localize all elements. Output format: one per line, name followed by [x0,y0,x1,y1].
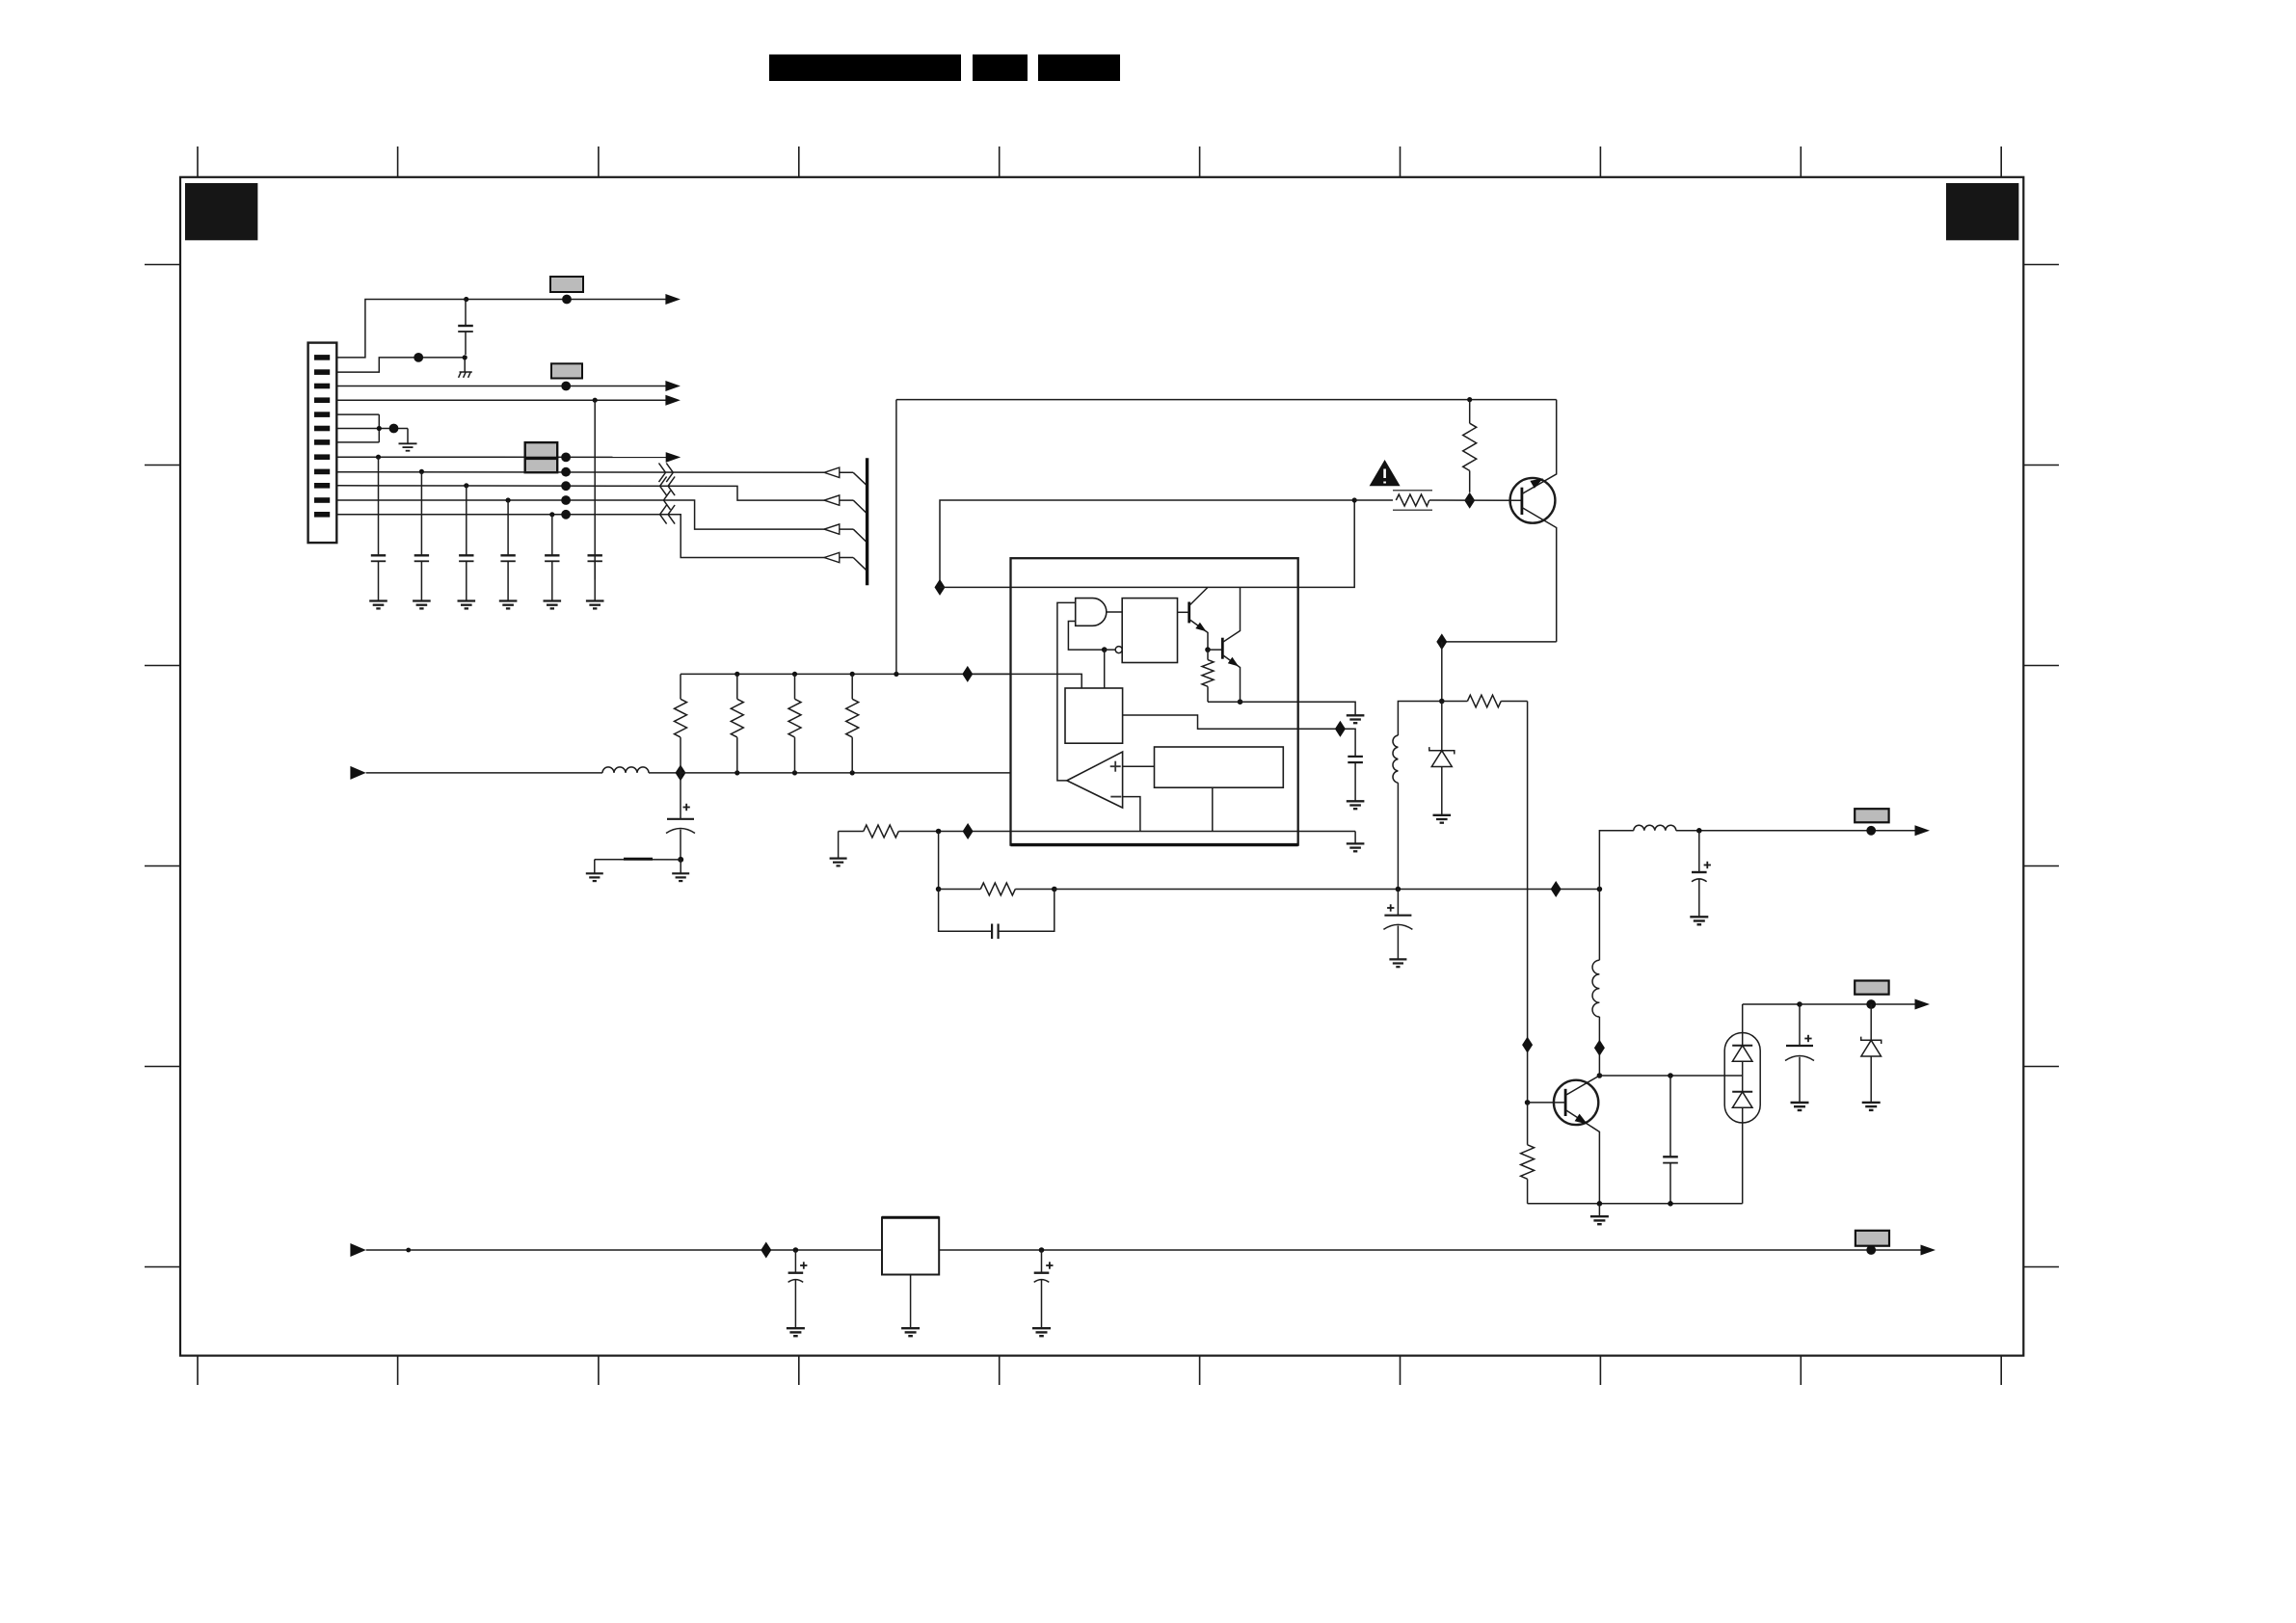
wire R9 to Q2 emitter node [1208,701,1241,703]
node diamond (supply rail) [676,764,686,781]
inductor L1 [602,767,649,773]
wire ground link [595,859,681,861]
wire ground link stub [594,860,596,874]
node junction E6 [793,1247,799,1253]
wire L1 to node [649,772,681,774]
decoupling capacitor C5 [500,500,515,601]
wire Q1 collector [1189,587,1208,605]
ground (C5) [499,601,518,609]
zener diode D3 [1861,1004,1882,1103]
arrow out (pin8) [666,452,681,463]
ground (E4) [1690,917,1708,924]
wire collector rail into IC [940,586,1298,588]
node junction pin12 drop [549,512,554,517]
wire inverter stub [1105,649,1116,651]
wire collector rail out of IC [1298,500,1355,587]
electrolytic capacitor E1 [666,773,695,860]
wire output tee down to choke L4 [1598,890,1600,961]
plus sign E7 [1046,1262,1053,1268]
twin diode D2 outline [1724,1033,1760,1124]
wire pin4 run [336,399,666,401]
node junction C9 bottom [1668,1201,1673,1207]
diode D2a [1732,1046,1752,1076]
node junction L2 / fb rail [1396,887,1402,892]
thick wire segment (ground link) [624,858,653,861]
wire reference block ground pin [1212,787,1214,831]
test point TP7 [561,481,571,491]
wire Q3 emitter lead [1565,1110,1599,1204]
test point TP5 [561,453,571,463]
wire supply rail bottom [681,772,1011,774]
resistor R8 [1521,1103,1535,1204]
bus arrow pin11 [824,524,840,534]
node junction pin10 drop [464,483,468,488]
arrow output2 [1915,999,1931,1010]
chevron marks pin12 (in) [660,505,676,524]
title bar 1 [769,55,961,82]
logic block U1b [1122,599,1177,663]
ground (C4) [458,601,476,609]
wire pin11 run [336,500,853,529]
wire pin6 ground drop [407,429,409,444]
input arrow (bottom rail) [350,1243,365,1257]
wire pin5-7 tie [378,414,380,442]
node diamond (base drop) [1522,1037,1533,1053]
electrolytic capacitor E6 [788,1250,804,1328]
node junction base loop [1352,497,1357,502]
label box (redacted) output2 [1855,981,1888,995]
arrow Q2 emitter [1228,657,1239,667]
ground (pin6) [399,443,417,450]
bus arrow pin10 [824,495,840,505]
capacitor C10 [1348,757,1363,762]
label box (redacted) TP3 [551,363,582,378]
wire to choke L2 [1398,702,1441,736]
decoupling capacitor C7 [588,555,602,600]
connector J1 pins 1-12 [314,355,330,517]
test point TP12 [1866,1245,1876,1255]
test point TP6 [561,467,571,477]
ground (analog right) [1347,843,1365,851]
node junction Q3 emitter bottom [1597,1201,1603,1207]
node junction sense drop [894,672,898,677]
inductor L2 (vertical) [1393,735,1398,783]
ground (E3) [1389,959,1406,967]
capacitor C1 [458,300,473,356]
ground (D1) [1433,815,1452,823]
test point TP8 [561,495,571,505]
arrow out (pin4) [665,395,681,406]
resistor R1 [675,674,687,773]
wire pin12 run [336,515,853,558]
wire Q1 emitter [1189,620,1208,651]
node junction pin4 drop [593,398,598,403]
node junction R4 bottom [850,770,855,775]
arrow output1 [1915,825,1931,836]
test point TP3 [561,382,571,391]
right grid ticks [2023,265,2059,1267]
node junction pin11 drop [506,497,511,502]
wire emitter sense to ground [1298,702,1355,715]
node junction R2 bottom [734,770,739,775]
connector J1 body [308,343,337,543]
test point TP2 [414,353,423,362]
border frame [180,177,2023,1356]
wire output2 run [1800,1003,1915,1005]
transistor Q1 base bar [1188,602,1190,624]
ground (emitter sense) [1347,715,1365,723]
plus sign E1 [683,804,690,811]
wire pin9 run [336,471,853,474]
node junction E5 [1797,1001,1802,1007]
control block U1c [1065,688,1123,743]
decoupling capacitor C2 [371,457,386,600]
wire pin8 run [336,456,666,458]
wire D2 top lead [1742,1004,1744,1046]
node junction R5 top [1467,397,1472,402]
test point TP1 [562,295,572,305]
wire Q2 emitter [1222,655,1240,703]
wire ground right drop [1354,832,1356,844]
node junction R4 top [850,672,855,677]
chevron mark pin11 (in) [664,491,671,510]
plus sign E3 [1387,904,1394,911]
plus sign E4 [1704,862,1711,868]
node junction R3 top [792,672,797,677]
wire Q4 bottom lead [1522,508,1557,642]
regulator U2 box [882,1217,939,1274]
op-amp U1d [1067,752,1123,808]
ground (E6) [787,1328,805,1336]
diode D2b [1732,1092,1752,1204]
wire control out to cap [1298,729,1355,756]
arrow output3 [1921,1245,1936,1256]
zener diode D1 [1429,702,1455,815]
node diamond (Q3 collector) [1594,1040,1605,1056]
node junction Q2 emitter [1238,699,1243,705]
wire pin5 stub [336,413,379,415]
wire fb rail to output node [1055,889,1600,891]
resistor R9 (internal) [1202,650,1214,702]
test point TP11 [1866,999,1876,1009]
node junction cap C1 top [464,297,468,302]
minus sign op-amp [1110,796,1121,798]
wire pin1 to top rail [336,300,666,358]
title bar 2 [973,55,1028,82]
ground (E5) [1791,1103,1809,1110]
wire input to L1 [366,772,602,774]
wire AND upper input / opamp feedback [1057,602,1076,781]
wire pin6 run [336,428,408,430]
node junction feedback drop [936,829,942,835]
wire bottom rail right [939,1249,1920,1251]
test point TP10 [1866,826,1876,836]
wire emitter ground stub [1598,1204,1600,1216]
wire pin12 bus diagonal [853,558,867,571]
wire pin7 stub [336,441,379,443]
wire emitter across [1442,641,1557,643]
transistor Q3 circle [1554,1080,1598,1125]
chassis ground (pin2) [459,359,472,378]
wire D2 top to output2 [1743,1003,1800,1005]
node junction Q1 emitter / Q2 base [1205,647,1211,652]
node junction output tee [1597,887,1603,892]
wire regulator ground pin [910,1275,912,1329]
arrow Q1 emitter [1195,623,1206,632]
wire Q3 collector lead [1565,1076,1599,1096]
plus sign E6 [800,1262,807,1268]
wire analog ground run [839,831,864,833]
node junction fb rail right [1052,887,1057,892]
capacitor C8 loop left [939,890,993,932]
test point TP9 [561,510,571,519]
electrolytic capacitor E5 [1785,1004,1814,1103]
wire base loop top [940,500,1354,587]
wire pin3 run [336,386,666,387]
title bar 3 [1038,55,1120,82]
node diamond (emitter out) [1436,633,1447,650]
node junction Q3 collector [1597,1073,1603,1078]
node diamond (ground sense) [963,823,974,839]
wire op-amp plus input [1123,765,1155,767]
wire emitter down [1441,642,1443,702]
inverter bubble [1115,647,1122,653]
node junction emitter net [1439,699,1445,705]
wire output tee up [1599,831,1633,890]
node junction E7 [1039,1247,1045,1253]
ground (analog left) [830,859,847,866]
wire R10 to base [1429,499,1522,501]
regulator U2 top edge (thick) [882,1216,939,1219]
node diamond (VCC to IC) [962,666,973,682]
node junction inverter input [1102,647,1108,652]
arrow out (top rail) [665,294,681,305]
ground (C6) [544,601,562,609]
wire feedback vertical [938,832,940,890]
ground (shunt) [1590,1216,1609,1224]
arrow Q4 (top lead) [1530,478,1543,488]
transistor Q2 base bar [1221,638,1224,659]
wire Q1 base [1178,611,1189,613]
wire control feed (y699) into IC [973,673,1010,675]
bus arrow pin12 [824,552,840,562]
wire L4 to Q3 collector [1598,1017,1600,1076]
wire Q4 top lead [1522,400,1557,494]
decoupling capacitor C4 [459,486,473,601]
node junction E1 bottom [678,857,683,863]
input arrow (supply) [350,766,365,780]
wire op-amp minus input [1123,797,1140,832]
node junction C9 top [1668,1073,1673,1078]
wire AND lower input [1068,622,1104,651]
bus bar [866,458,868,585]
IC U1 bottom edge (thick) [1011,843,1298,846]
wire pin10 bus diagonal [853,500,867,513]
wire sense vertical [895,400,897,675]
wire AND output [1107,611,1122,613]
ground (C10) [1347,801,1365,809]
ground (D3) [1862,1103,1881,1110]
transistor Q4 base bar [1521,488,1524,515]
node junction E4 [1696,828,1702,834]
decoupling capacitor C6 [545,515,559,601]
wire ground left drop [838,832,840,859]
label box (redacted) double lower [525,459,558,472]
wire pin2 run [336,358,465,372]
chevron marks pin10 (in) [660,477,676,496]
node junction pin2/C1 [463,355,467,359]
test point TP4 [389,424,399,434]
top grid ticks [198,146,2001,177]
wire Q2 base [1208,649,1222,651]
wire control block output [1123,715,1298,729]
resistor R2 [731,674,743,773]
node junction R2 top [734,672,739,677]
resistor R5 (vertical) [1463,400,1477,492]
node junction (stub) [406,1248,411,1253]
resistor R7a (in ground run) [864,825,898,838]
node junction pin8 drop [376,455,381,460]
transistor Q4 circle [1510,478,1556,523]
decoupling capacitor C3 [414,471,429,600]
node junction Q3 base [1525,1100,1531,1105]
node diamond (Q4 base) [1464,492,1475,509]
wire top feed y414 [896,399,1557,401]
resistor R7 [939,883,1055,895]
plus sign E5 [1804,1035,1811,1042]
ground (C7) [586,601,604,609]
warning exclamation [1383,469,1386,484]
wire top rail [681,674,1081,688]
corner black square right [1946,183,2018,240]
ground (C2) [369,601,387,609]
wire Q3 base [1528,1102,1566,1104]
resistor R3 [788,674,801,773]
node junction pin9 drop [419,469,424,474]
node junction pin6 tie [377,426,382,431]
arrow out (pin3) [665,381,681,391]
plus sign op-amp [1110,761,1121,772]
wire L2 to fb rail [1397,783,1399,889]
wire emitter sense out of IC [1241,701,1298,703]
AND gate U1a [1076,599,1107,626]
node diamond (bottom rail) [761,1242,771,1259]
ground (E1) [672,873,689,881]
resistor R4 [846,674,859,773]
node diamond (fb rail right) [1551,881,1562,897]
wire pin9 bus diagonal [853,472,867,485]
arrow Q3 emitter [1575,1114,1588,1125]
wire shunt bottom run [1528,1203,1743,1205]
label box (redacted) output3 [1855,1231,1889,1246]
inductor L4 (vertical) [1592,960,1599,1017]
wire D2 mid tap [1742,1076,1744,1092]
ground (link left) [586,873,603,881]
wire R6 drop (to Q3 base) [1527,702,1529,1103]
wire pin10 run [336,486,853,500]
reference block U1e [1155,747,1284,787]
IC U1 box [1011,558,1298,844]
node junction R3 bottom [792,770,797,775]
label box (redacted) output1 [1855,809,1888,822]
ground (C3) [413,601,431,609]
transistor Q3 base bar [1564,1089,1567,1116]
wire inverter node to control block [1104,650,1106,688]
capacitor C8 loop right [999,890,1055,932]
wire bottom rail left [366,1249,882,1251]
wire collector tap [1599,1075,1742,1077]
node diamond (collector rail) [935,579,946,596]
wire pin4 drop to C7 [594,400,596,579]
electrolytic capacitor E7 [1034,1250,1050,1328]
corner black square left [185,183,257,240]
label box (redacted) TP1 [550,277,583,292]
wire Q2 collector [1222,587,1240,642]
ground (E7) [1032,1328,1051,1336]
inductor L3 [1634,825,1676,830]
capacitor C9 [1663,1076,1678,1204]
ground (U2) [901,1328,920,1336]
electrolytic capacitor E3 [1383,890,1412,960]
fusible resistor R10 [1393,491,1432,511]
electrolytic capacitor E4 [1692,831,1707,918]
resistor R6 [1442,695,1528,707]
bus arrow pin9 [824,467,840,477]
label box (redacted) double upper [525,442,558,458]
wire L3 to arrow [1676,830,1915,832]
left grid ticks [145,265,180,1267]
warning triangle [1370,460,1401,486]
wire pin11 bus diagonal [853,529,867,542]
wire C10 to ground [1354,762,1356,801]
wire E1 ground stub [680,860,681,873]
wire base segment [1354,499,1393,501]
node junction fb rail left [936,887,942,892]
capacitor C8 plates [992,924,999,940]
chevron marks pin9 (out) [659,464,674,483]
bottom grid ticks [198,1356,2001,1385]
node diamond (control out) [1335,721,1346,737]
